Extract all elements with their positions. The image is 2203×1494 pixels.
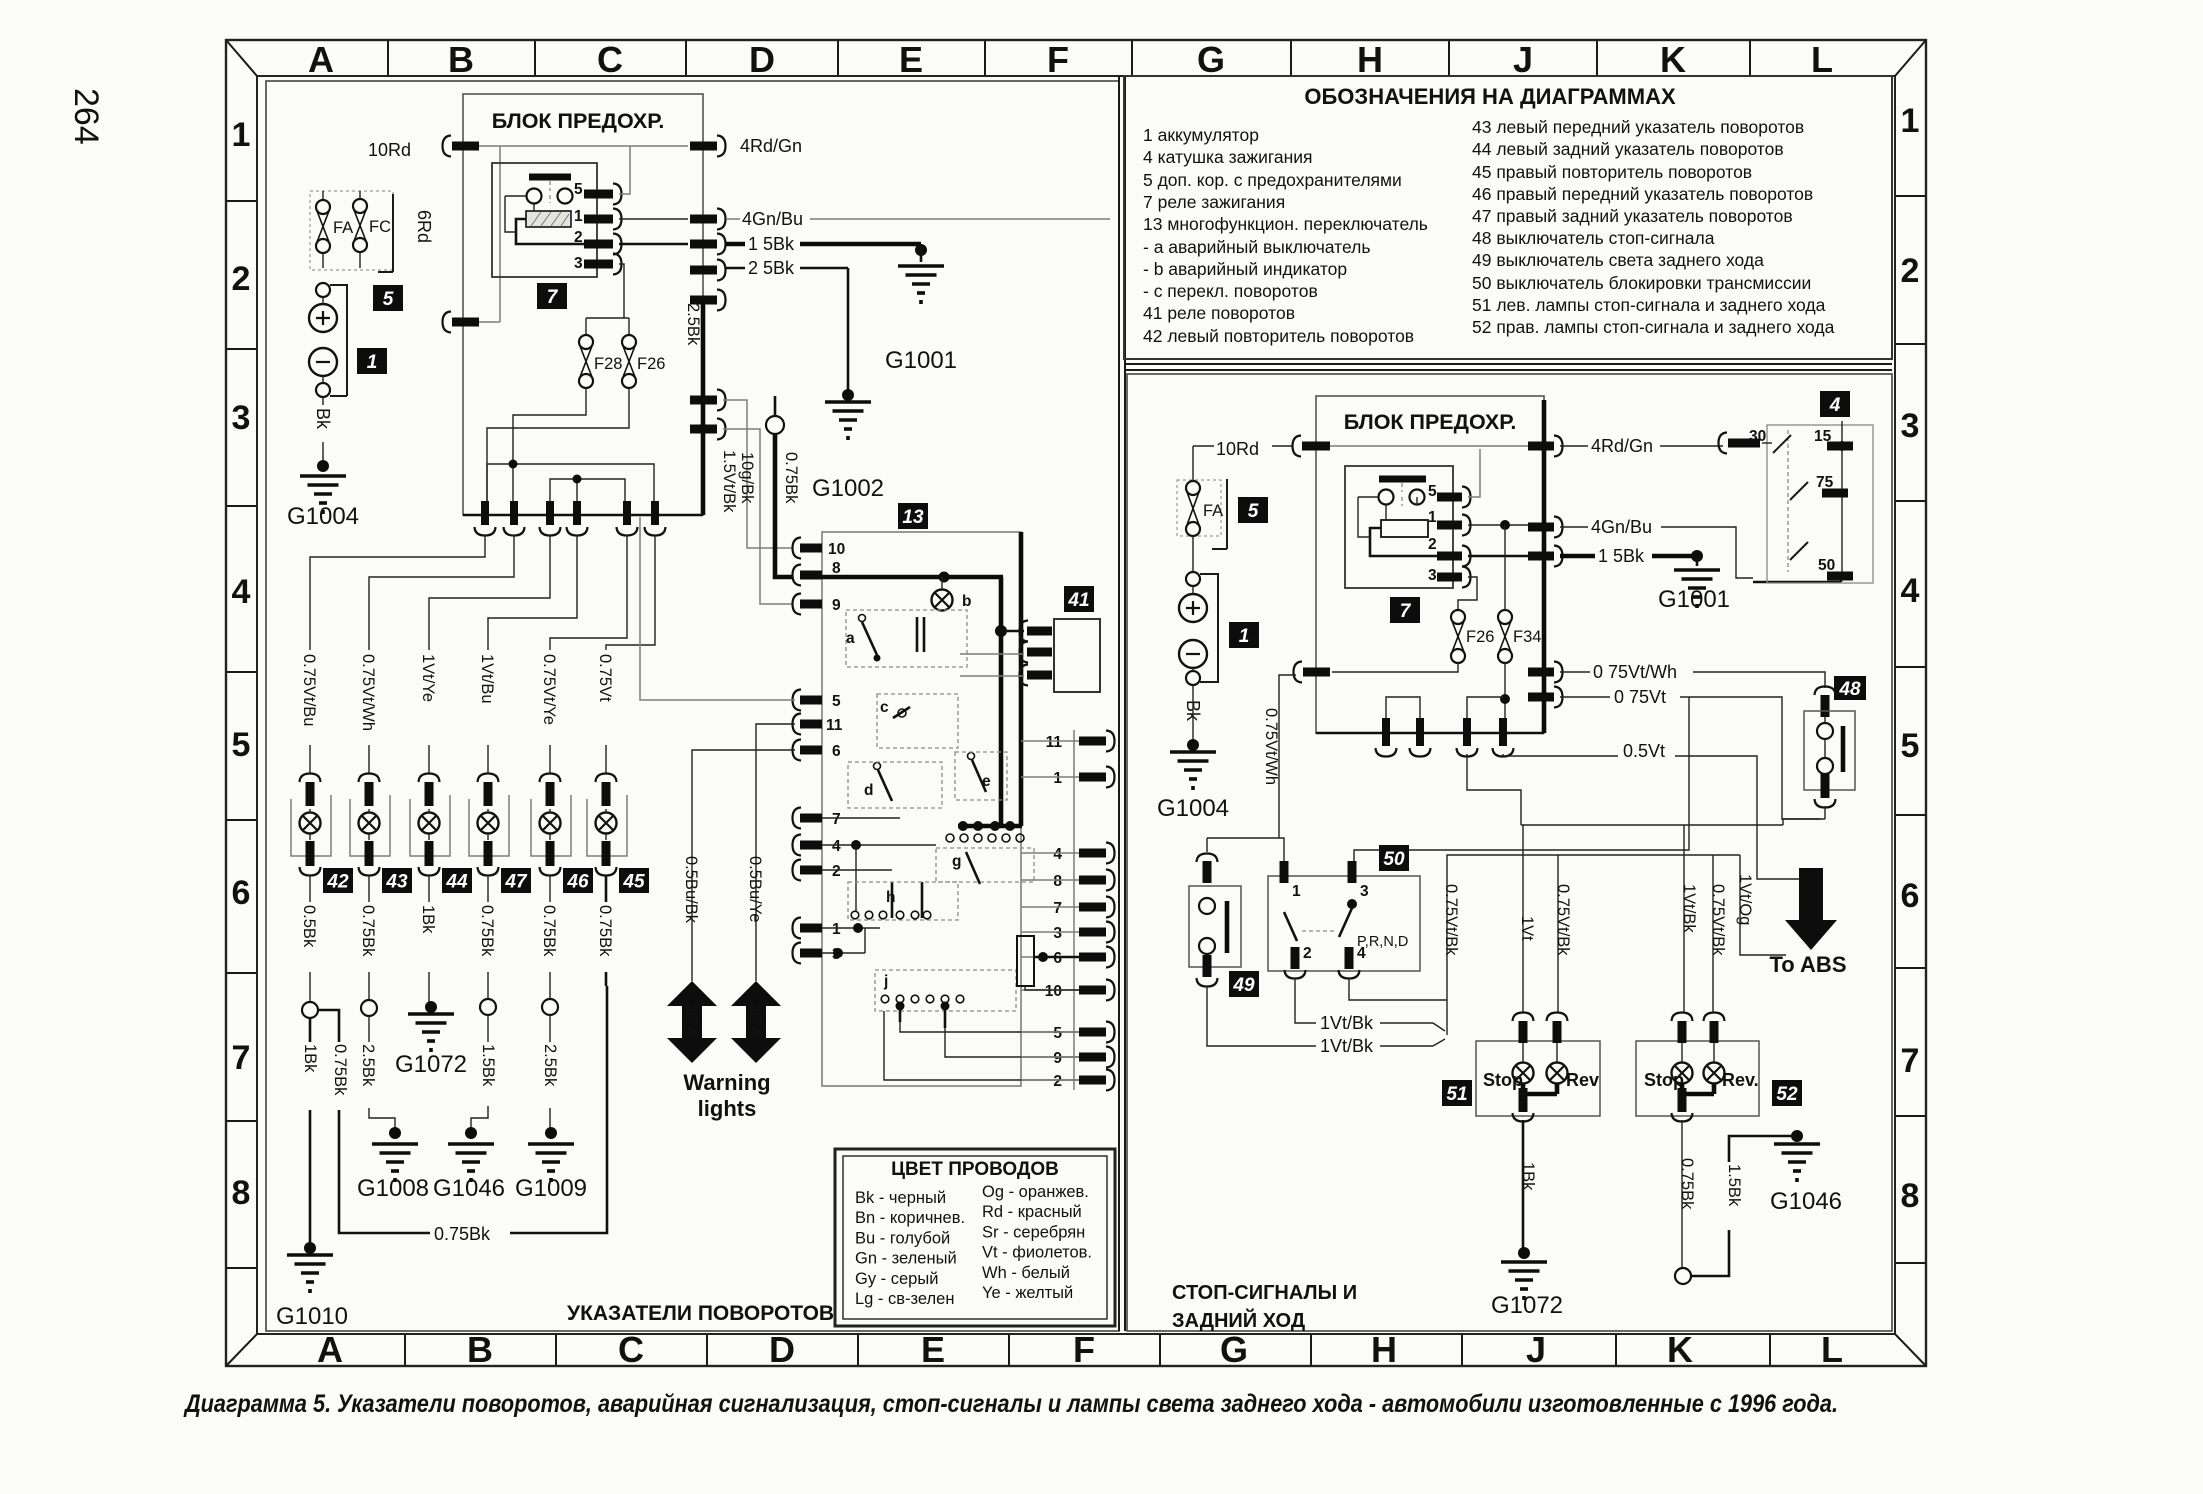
ground G1008: [389, 1127, 401, 1139]
svg-text:2: 2: [1428, 536, 1437, 553]
svg-text:Rev.: Rev.: [1722, 1070, 1759, 1090]
svg-text:49 выключатель света заднего х: 49 выключатель света заднего хода: [1472, 250, 1764, 270]
svg-text:ЦВЕТ ПРОВОДОВ: ЦВЕТ ПРОВОДОВ: [891, 1159, 1059, 1180]
pin 2: [793, 860, 802, 881]
inner wires rows 1 3: [822, 928, 880, 953]
wire 4Gn/Bu to switch 50: [1560, 527, 1753, 578]
lamp 52 stop: [1672, 1063, 1693, 1084]
svg-text:2 5Bk: 2 5Bk: [748, 258, 795, 278]
svg-text:h: h: [886, 889, 895, 906]
svg-text:БЛОК ПРЕДОХР.: БЛОК ПРЕДОХР.: [492, 109, 665, 133]
contact circles row h: [851, 911, 859, 919]
svg-text:0.75Vt/Bk: 0.75Vt/Bk: [1554, 884, 1572, 956]
bracket 5 (right): [1212, 479, 1227, 549]
svg-text:1.5Bk: 1.5Bk: [479, 1044, 497, 1087]
bracket component 5: [378, 194, 393, 272]
svg-text:51: 51: [1446, 1084, 1467, 1105]
svg-text:8: 8: [232, 1174, 251, 1212]
svg-text:1Vt/Bu: 1Vt/Bu: [478, 654, 496, 704]
svg-text:L: L: [1811, 39, 1833, 80]
central divider: [1119, 76, 1125, 1331]
svg-text:0.5Bu/Ye: 0.5Bu/Ye: [746, 856, 764, 922]
svg-text:1Vt/Ye: 1Vt/Ye: [419, 654, 437, 702]
svg-text:4: 4: [1901, 572, 1920, 610]
svg-text:11: 11: [826, 717, 843, 734]
svg-text:50: 50: [1383, 849, 1405, 870]
svg-text:10Rd: 10Rd: [368, 140, 411, 160]
svg-text:11: 11: [1046, 734, 1063, 751]
svg-text:0.75Vt/Wh: 0.75Vt/Wh: [1262, 708, 1280, 785]
ground G1072 (left): [408, 1014, 454, 1052]
svg-text:Vt - фиолетов.: Vt - фиолетов.: [982, 1244, 1092, 1262]
wire riser to pin9 of switch 13: [723, 429, 793, 604]
svg-text:Bk: Bk: [313, 408, 333, 430]
svg-text:4Gn/Bu: 4Gn/Bu: [742, 209, 803, 229]
svg-text:4: 4: [1829, 395, 1841, 416]
svg-text:75: 75: [1816, 474, 1834, 491]
svg-text:7: 7: [832, 811, 841, 828]
switch 49: [1197, 854, 1218, 863]
svg-text:52 прав. лампы стоп-сигнала и: 52 прав. лампы стоп-сигнала и заднего хо…: [1472, 317, 1835, 337]
svg-text:6: 6: [232, 874, 251, 912]
svg-text:- а аварийный выключатель: - а аварийный выключатель: [1143, 237, 1370, 257]
svg-text:3: 3: [1901, 407, 1920, 445]
wire 0.75Bk down: [1681, 1120, 1683, 1268]
fuse box БЛОК ПРЕДОХР. (left): [463, 94, 703, 515]
svg-text:0.75Vt/Bk: 0.75Vt/Bk: [1709, 884, 1727, 956]
svg-text:G1046: G1046: [433, 1175, 505, 1202]
lamp unit 51: [1476, 1041, 1600, 1116]
svg-text:Rev: Rev: [1566, 1070, 1599, 1090]
svg-text:5: 5: [1428, 483, 1437, 500]
svg-text:2.5Bk: 2.5Bk: [541, 1044, 559, 1087]
frame grid separators: [227, 41, 1925, 1365]
svg-text:c: c: [880, 699, 889, 716]
legend right column: [1472, 117, 1835, 337]
staples (right): [1386, 697, 1420, 718]
wires pins 5,11,6 region: [640, 517, 795, 700]
svg-text:Bk - черный: Bk - черный: [855, 1189, 946, 1207]
svg-text:Og - оранжев.: Og - оранжев.: [982, 1183, 1089, 1201]
dashed box around a: [846, 610, 967, 667]
lamp 43: [350, 745, 390, 876]
svg-text:4: 4: [832, 838, 841, 855]
wire F34 bottom riser to bus: [1504, 663, 1506, 718]
svg-text:0.75Bk: 0.75Bk: [596, 905, 614, 957]
wire: [550, 535, 627, 650]
svg-text:B: B: [448, 39, 474, 80]
frame column letters bottom: [317, 1329, 1843, 1370]
relay 7 box (right): [1345, 466, 1453, 588]
multifunction switch 13 box: [822, 532, 1021, 1086]
svg-text:8: 8: [832, 560, 841, 577]
svg-text:7: 7: [1053, 900, 1062, 917]
lamp unit 52: [1636, 1041, 1759, 1116]
thick riser at 13 right edge: [1019, 532, 1024, 826]
svg-text:0.75Vt/Ye: 0.75Vt/Ye: [540, 654, 558, 725]
svg-text:Ye - желтый: Ye - желтый: [982, 1284, 1073, 1302]
svg-text:Rd - красный: Rd - красный: [982, 1203, 1082, 1221]
wire pin1 4Gn/Bu (right): [1468, 524, 1528, 526]
divider under legend: [1125, 364, 1892, 370]
bus connectors (right): [1382, 718, 1390, 746]
wire 1Vt/Og to ABS: [1740, 855, 1786, 955]
wire: [369, 535, 514, 650]
relay 7 pin connectors (right): [1437, 493, 1462, 502]
pin 3: [793, 943, 802, 964]
svg-text:9: 9: [1053, 1050, 1062, 1067]
svg-text:1 аккумулятор: 1 аккумулятор: [1143, 125, 1259, 145]
lamp 44: [410, 745, 450, 876]
bracket component 1: [330, 285, 347, 396]
svg-text:FA: FA: [1203, 502, 1223, 520]
warning arrow right: [731, 981, 781, 1063]
wire 0.75Vt/Wh feed to 49/50: [1207, 675, 1296, 861]
tag 1: [357, 348, 387, 374]
frame column letters top: [308, 39, 1833, 80]
svg-text:4 катушка зажигания: 4 катушка зажигания: [1143, 147, 1313, 167]
connector on fuse box left edge row 2: [443, 312, 452, 333]
svg-text:Gn - зеленый: Gn - зеленый: [855, 1250, 957, 1268]
svg-text:G1009: G1009: [515, 1175, 587, 1202]
svg-text:G: G: [1197, 39, 1225, 80]
branch 43 to ground G1008: [368, 972, 370, 1000]
svg-text:9: 9: [832, 597, 841, 614]
svg-text:7: 7: [1901, 1042, 1920, 1080]
ground G1046 (right): [1791, 1130, 1803, 1142]
svg-text:3/F4: 3/F4: [682, 1003, 699, 1035]
svg-text:0.5Bk: 0.5Bk: [300, 905, 318, 948]
wire F28 to bus bar2: [513, 388, 586, 501]
svg-text:46 правый передний указатель п: 46 правый передний указатель поворотов: [1472, 184, 1813, 204]
svg-text:10Rd: 10Rd: [1216, 439, 1259, 459]
svg-text:5: 5: [383, 289, 394, 310]
thick wire 8 bus inside 13: [822, 575, 1003, 580]
thick wire 0.75Bk to pin8: [775, 434, 793, 577]
wire 1Bk to G1072: [1522, 1120, 1525, 1249]
svg-text:13 многофункцион. переключател: 13 многофункцион. переключатель: [1143, 214, 1428, 234]
svg-text:6: 6: [1901, 877, 1920, 915]
svg-text:6: 6: [1053, 950, 1062, 967]
battery 1 (right): [1179, 572, 1207, 685]
wire riser to pin10 of switch 13: [723, 400, 793, 548]
pin 7: [793, 808, 802, 829]
fuse box bottom edge (right): [1316, 732, 1544, 735]
svg-text:47 правый задний указатель пов: 47 правый задний указатель поворотов: [1472, 206, 1793, 226]
ground G1004 (right): [1187, 739, 1199, 751]
svg-text:44: 44: [445, 871, 468, 892]
svg-text:- с перекл. поворотов: - с перекл. поворотов: [1143, 281, 1318, 301]
svg-text:4: 4: [1053, 846, 1062, 863]
wire 48 output: [1783, 806, 1825, 825]
wire F34 top riser: [1504, 525, 1506, 610]
svg-text:G1072: G1072: [395, 1051, 467, 1078]
svg-text:Lg - св-зелен: Lg - св-зелен: [855, 1290, 954, 1308]
svg-text:41 реле поворотов: 41 реле поворотов: [1143, 303, 1295, 323]
fuse F34: [1498, 610, 1541, 663]
svg-text:Sr - серебрян: Sr - серебрян: [982, 1223, 1085, 1241]
svg-text:b: b: [962, 593, 971, 610]
wire 1.5Bk to G1046: [1691, 1136, 1794, 1276]
svg-text:5: 5: [232, 726, 251, 764]
pin 4: [793, 835, 802, 856]
left diagram border: [266, 81, 1119, 1331]
svg-text:1Bk: 1Bk: [419, 905, 437, 934]
wire pin5 to 4Rd/Gn row: [619, 146, 630, 194]
connectors on thick riser (right): [1528, 442, 1554, 451]
relay 41: [1064, 586, 1094, 612]
svg-text:2: 2: [1303, 945, 1312, 962]
svg-text:4: 4: [1357, 945, 1366, 962]
svg-text:G1004: G1004: [1157, 795, 1229, 822]
svg-text:lights: lights: [698, 1096, 757, 1121]
svg-text:264: 264: [67, 88, 105, 145]
svg-text:5: 5: [832, 693, 841, 710]
svg-text:0.75Bk: 0.75Bk: [434, 1224, 491, 1244]
wire 0.75Vt branch to switch 50 pin3: [1354, 697, 1689, 861]
tag 51: [1442, 1080, 1472, 1106]
ground G1072 (right): [1518, 1247, 1530, 1259]
svg-text:2.5Bk: 2.5Bk: [359, 1044, 377, 1087]
bus staple B: [550, 479, 625, 501]
wire j to pin 5: [900, 1022, 1079, 1032]
svg-text:8: 8: [1053, 873, 1062, 890]
svg-text:5: 5: [1053, 1025, 1062, 1042]
ignition switch 4: [1820, 391, 1850, 417]
svg-text:1: 1: [367, 352, 378, 373]
svg-text:1Vt: 1Vt: [1518, 916, 1536, 941]
svg-text:0.75Bk: 0.75Bk: [1678, 1158, 1696, 1210]
svg-text:42 левый повторитель поворотов: 42 левый повторитель поворотов: [1143, 326, 1414, 346]
frame row numbers left: [232, 116, 251, 1212]
svg-text:УКАЗАТЕЛИ ПОВОРОТОВ: УКАЗАТЕЛИ ПОВОРОТОВ: [567, 1302, 834, 1325]
wire F26 to bus bar1: [487, 388, 629, 501]
thick feed riser (right box edge): [1542, 400, 1547, 733]
lamp 47: [469, 745, 509, 876]
connector 0.75Vt/Wh left (right diagram): [1294, 662, 1303, 683]
lamp 46: [531, 745, 571, 876]
svg-text:A: A: [317, 1329, 343, 1370]
svg-text:43: 43: [385, 871, 408, 892]
relay 7 pin connectors: [584, 190, 613, 199]
tag 7 (right): [1390, 597, 1420, 623]
wire: [368, 875, 370, 902]
svg-text:ЗАДНИЙ ХОД: ЗАДНИЙ ХОД: [1172, 1308, 1305, 1332]
svg-text:45: 45: [622, 871, 645, 892]
svg-text:43 левый передний указатель по: 43 левый передний указатель поворотов: [1472, 117, 1804, 137]
fuse FA (left): [310, 191, 393, 270]
svg-text:4Rd/Gn: 4Rd/Gn: [740, 136, 802, 156]
svg-text:49: 49: [1232, 975, 1255, 996]
svg-text:1: 1: [1901, 102, 1920, 140]
svg-text:1: 1: [1292, 883, 1301, 900]
color legend box ЦВЕТ ПРОВОДОВ: [835, 1149, 1115, 1326]
svg-text:8: 8: [1901, 1177, 1920, 1215]
relay 41 connectors: [1020, 621, 1029, 642]
svg-text:Bn - коричнев.: Bn - коричнев.: [855, 1209, 965, 1227]
wire: [606, 535, 655, 650]
switch j box: [875, 970, 1016, 1011]
svg-text:ОБОЗНАЧЕНИЯ НА ДИАГРАММАХ: ОБОЗНАЧЕНИЯ НА ДИАГРАММАХ: [1304, 84, 1676, 109]
svg-text:L: L: [1821, 1329, 1843, 1370]
svg-text:0.5Vt: 0.5Vt: [1623, 741, 1665, 761]
wire: [487, 875, 489, 902]
wire 52 rev drop: [1712, 855, 1714, 1013]
svg-text:1Vt/Bk: 1Vt/Bk: [1320, 1013, 1374, 1033]
wire pin5 (right): [1468, 449, 1480, 497]
svg-text:Stop: Stop: [1483, 1070, 1523, 1090]
svg-text:1Vt/Bk: 1Vt/Bk: [1320, 1036, 1374, 1056]
svg-text:3/F4: 3/F4: [746, 1003, 763, 1035]
svg-text:3: 3: [574, 255, 583, 272]
tag 45: [619, 868, 649, 893]
tag 42: [323, 868, 353, 893]
wire pin3 to F26 (right): [1458, 577, 1477, 610]
svg-text:0.5Bu/Bk: 0.5Bu/Bk: [682, 856, 700, 924]
svg-text:5 доп. кор. с предохранителями: 5 доп. кор. с предохранителями: [1143, 170, 1402, 190]
svg-text:- b аварийный индикатор: - b аварийный индикатор: [1143, 259, 1347, 279]
svg-text:0.75Vt/Bu: 0.75Vt/Bu: [300, 654, 318, 726]
pin 9: [793, 594, 802, 615]
ground G1004 (left): [317, 460, 329, 472]
svg-text:0 75Vt/Wh: 0 75Vt/Wh: [1593, 662, 1677, 682]
dashed box around c: [877, 694, 958, 748]
svg-text:To ABS: To ABS: [1770, 952, 1847, 977]
svg-text:1: 1: [1053, 770, 1062, 787]
fuse F26 (right): [1451, 610, 1494, 663]
tag 13: [898, 503, 928, 529]
svg-text:51 лев. лампы стоп-сигнала и з: 51 лев. лампы стоп-сигнала и заднего ход…: [1472, 295, 1826, 315]
wire inside fuse box top: [479, 145, 688, 147]
To ABS arrow: [1770, 868, 1847, 977]
wire 51 rev drop: [1557, 855, 1559, 1013]
svg-text:J: J: [1526, 1329, 1546, 1370]
inner wires rows 7 4 2: [822, 818, 936, 870]
svg-text:10: 10: [1045, 983, 1062, 1000]
svg-text:g: g: [952, 853, 961, 870]
svg-text:D: D: [769, 1329, 795, 1370]
branch 42 circle and split: [309, 972, 311, 1001]
svg-text:3: 3: [1428, 567, 1437, 584]
frame row numbers right: [1901, 102, 1920, 1215]
svg-text:F26: F26: [637, 355, 665, 373]
wire 52 stop drop 1Vt/Bk: [1683, 825, 1685, 1013]
svg-text:3: 3: [1360, 883, 1369, 900]
svg-text:B: B: [467, 1329, 493, 1370]
svg-text:F: F: [1073, 1329, 1095, 1370]
svg-text:1: 1: [232, 116, 251, 154]
svg-text:K: K: [1660, 39, 1686, 80]
ground G1010: [304, 1242, 316, 1254]
svg-text:G1001: G1001: [885, 347, 957, 374]
svg-text:Warning: Warning: [683, 1070, 770, 1095]
svg-text:5: 5: [574, 181, 583, 198]
svg-text:F26: F26: [1466, 628, 1494, 646]
pin 5: [793, 690, 802, 711]
svg-text:44 левый задний указатель пово: 44 левый задний указатель поворотов: [1472, 139, 1784, 159]
svg-text:13: 13: [902, 507, 924, 528]
warning arrow left: [667, 981, 717, 1063]
svg-text:0.75Bk: 0.75Bk: [540, 905, 558, 957]
svg-text:j: j: [883, 973, 888, 990]
svg-text:2.5Bk: 2.5Bk: [684, 303, 702, 346]
branch 44 to ground G1072: [428, 972, 430, 1003]
svg-text:Bu - голубой: Bu - голубой: [855, 1229, 950, 1247]
svg-text:A: A: [308, 39, 334, 80]
svg-text:G1004: G1004: [287, 503, 359, 530]
svg-text:1: 1: [1239, 626, 1250, 647]
svg-text:4Gn/Bu: 4Gn/Bu: [1591, 517, 1652, 537]
svg-text:0.75Bk: 0.75Bk: [782, 452, 800, 504]
switch 50: [1379, 845, 1409, 871]
hazard indicator lamp b: [932, 590, 953, 611]
tag 47: [501, 868, 531, 893]
svg-text:5: 5: [1248, 501, 1259, 522]
pin 8: [793, 565, 802, 586]
wire pin2 1.5Bk (right): [1468, 555, 1528, 558]
svg-text:1.5Vt/Bk: 1.5Vt/Bk: [720, 450, 738, 513]
tag 52: [1772, 1080, 1802, 1106]
svg-text:FA: FA: [333, 219, 353, 237]
lamp 51 stop: [1513, 1063, 1534, 1084]
svg-text:F: F: [1047, 39, 1069, 80]
pin 11: [793, 714, 802, 735]
wire 0.75Bk jog from 42 to collector: [318, 986, 607, 1233]
ground G1009: [545, 1127, 557, 1139]
frame outer border: [226, 40, 1926, 1366]
contact pair: [917, 617, 924, 652]
fuse box БЛОК ПРЕДОХР. (right): [1316, 396, 1544, 733]
svg-text:7: 7: [547, 287, 559, 308]
riser 0.75Vt/Bk up: [1447, 855, 1740, 1035]
svg-text:a: a: [846, 630, 855, 647]
connectors on thick riser: [690, 396, 717, 405]
wire j to pin 9: [945, 1028, 1079, 1057]
svg-text:2: 2: [1901, 252, 1920, 290]
svg-text:D: D: [749, 39, 775, 80]
branch 45 wire down: [605, 875, 608, 986]
svg-text:45 правый повторитель поворото: 45 правый повторитель поворотов: [1472, 162, 1752, 182]
svg-text:10g/Bk: 10g/Bk: [738, 452, 756, 504]
right pin connectors of 13: [1073, 730, 1075, 1090]
branch 47 to ground G1046: [487, 972, 489, 999]
wire 48 stop feed: [1467, 754, 1521, 825]
svg-text:СТОП-СИГНАЛЫ И: СТОП-СИГНАЛЫ И: [1172, 1282, 1357, 1304]
svg-text:1Bk: 1Bk: [1519, 1162, 1537, 1191]
svg-text:1: 1: [832, 921, 841, 938]
bus connectors on fuse box bottom: [463, 514, 703, 517]
svg-text:47: 47: [504, 871, 528, 892]
wire: [309, 875, 311, 902]
svg-text:K: K: [1667, 1329, 1693, 1370]
svg-text:C: C: [618, 1329, 644, 1370]
svg-text:6Rd: 6Rd: [414, 210, 434, 243]
svg-text:7: 7: [232, 1039, 251, 1077]
pin 10: [793, 538, 802, 559]
svg-text:FC: FC: [369, 218, 391, 236]
svg-text:2: 2: [574, 229, 583, 246]
svg-text:БЛОК ПРЕДОХР.: БЛОК ПРЕДОХР.: [1344, 410, 1517, 434]
svg-text:2: 2: [1053, 1073, 1062, 1090]
wire pin3 to fuses F28 F26: [586, 264, 629, 335]
svg-text:F34: F34: [1513, 628, 1541, 646]
svg-text:3: 3: [232, 399, 251, 437]
tag 46: [563, 868, 593, 893]
svg-text:4: 4: [232, 573, 251, 611]
legend left column: [1143, 125, 1428, 346]
svg-text:E: E: [921, 1329, 945, 1370]
lamp 51 rev: [1547, 1063, 1568, 1084]
